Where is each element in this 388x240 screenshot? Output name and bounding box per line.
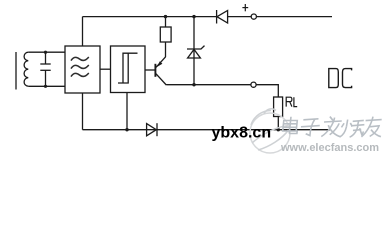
label RL — [286, 97, 297, 106]
inductor L1 — [24, 52, 28, 86]
resistor RL — [274, 97, 283, 117]
wire filter bottom lead — [82, 93, 84, 130]
svg-text:www.elecfans.com: www.elecfans.com — [280, 142, 379, 154]
watermark swirl logo — [250, 109, 290, 153]
wire top output — [256, 16, 332, 18]
svg-text:ybx8.cn: ybx8.cn — [212, 124, 272, 141]
zener diode D2 — [193, 17, 195, 85]
wire mid output — [256, 85, 278, 97]
node zener bottom — [192, 83, 195, 86]
wire schmitt bottom lead — [126, 93, 128, 130]
schmitt trigger U2 box — [111, 46, 146, 93]
wire bottom rail — [83, 129, 331, 131]
watermark chinese characters dian zi fa shao you — [282, 117, 383, 138]
filter stage U1 box — [65, 46, 100, 93]
label plus — [242, 4, 248, 11]
label DC letter C — [343, 69, 352, 88]
transistor Q1 collector — [156, 74, 167, 85]
terminal plus — [251, 14, 256, 19]
resistor R1 — [165, 17, 167, 27]
node R1 top — [164, 15, 167, 18]
label DC letter D — [329, 69, 339, 88]
wire collector rail — [166, 84, 251, 86]
diode D1 — [216, 10, 218, 24]
wire top-left vertical — [82, 17, 84, 46]
transistor Q1 base bar — [154, 64, 156, 77]
wire between boxes — [100, 68, 111, 70]
antenna ferrite bar — [15, 52, 17, 90]
wire tank top rail — [28, 51, 65, 53]
node capacitor top — [44, 51, 47, 54]
wire top rail — [83, 16, 217, 18]
filter wave symbol — [71, 57, 89, 77]
node RL bottom junction — [277, 128, 280, 131]
node zener top — [192, 15, 195, 18]
transistor Q1 emitter with arrow — [156, 57, 166, 68]
diode D3 — [147, 124, 157, 136]
capacitor C1 — [45, 52, 47, 64]
terminal output — [251, 82, 256, 87]
node bottom rail junction — [125, 128, 128, 131]
wire base lead — [145, 69, 155, 71]
hysteresis symbol — [118, 53, 138, 83]
wire tank bottom rail — [28, 85, 65, 87]
node capacitor bottom — [44, 85, 47, 88]
